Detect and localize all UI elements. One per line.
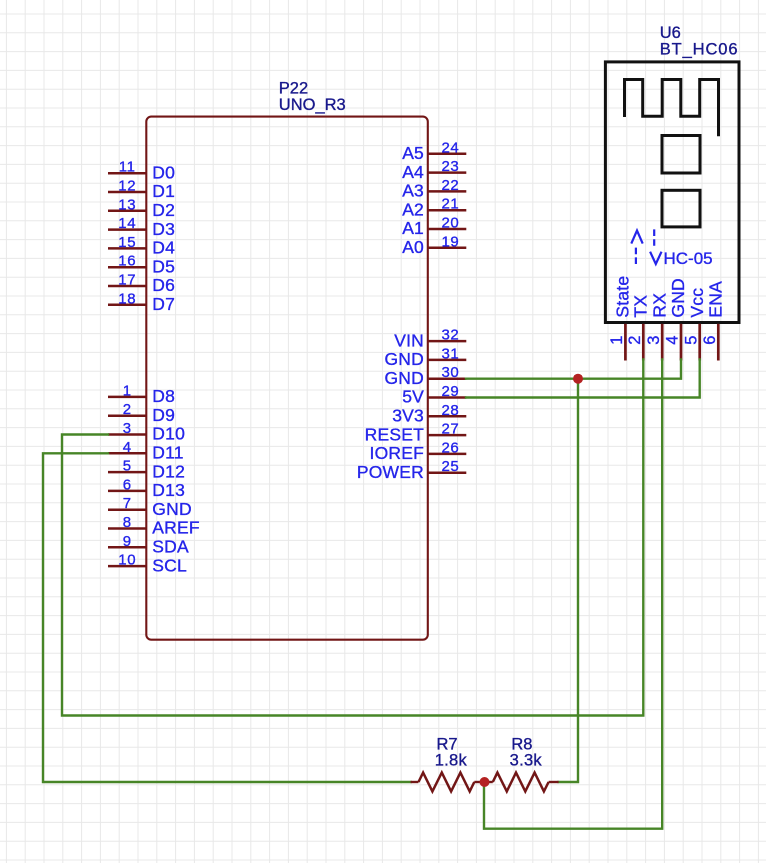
svg-text:12: 12	[118, 178, 136, 195]
wire R8 right to GND net	[559, 379, 578, 782]
pin 17 D6 (UNO left)	[108, 272, 175, 296]
svg-text:P22: P22	[279, 80, 308, 98]
svg-text:SCL: SCL	[152, 555, 187, 575]
svg-text:AREF: AREF	[152, 518, 199, 538]
svg-text:D3: D3	[152, 219, 175, 239]
svg-text:D0: D0	[152, 162, 175, 182]
svg-text:Vcc: Vcc	[687, 288, 707, 318]
svg-text:D8: D8	[152, 386, 175, 406]
svg-text:GND: GND	[385, 349, 425, 369]
svg-text:A2: A2	[402, 199, 424, 219]
IC U=P22 UNO_R3 body	[146, 117, 428, 640]
pin 7 GND (UNO left)	[108, 495, 192, 519]
junction node GND wire / R8 branch	[573, 374, 583, 384]
svg-text:13: 13	[118, 196, 136, 213]
pin 1 State (U6)	[608, 276, 633, 361]
svg-text:29: 29	[441, 383, 459, 400]
wire GND: UNO pin30 to U6 pin4	[466, 360, 681, 379]
pin 4 GND (U6)	[664, 278, 689, 360]
pin 6 D13 (UNO left)	[108, 476, 185, 500]
svg-text:30: 30	[441, 364, 459, 381]
svg-text:BT_HC06: BT_HC06	[660, 41, 739, 59]
pin 5 D12 (UNO left)	[108, 458, 185, 482]
svg-text:D7: D7	[152, 294, 175, 314]
svg-text:5: 5	[682, 336, 700, 345]
svg-text:6: 6	[701, 336, 719, 345]
svg-text:31: 31	[441, 345, 459, 362]
pin 20 A1 (UNO right)	[402, 215, 466, 239]
svg-text:POWER: POWER	[357, 462, 424, 482]
svg-text:D10: D10	[152, 424, 185, 444]
svg-text:VIN: VIN	[394, 330, 424, 350]
svg-text:D4: D4	[152, 238, 175, 258]
pin 25 POWER (UNO right)	[357, 458, 466, 482]
svg-text:1.8k: 1.8k	[435, 751, 468, 769]
pin 29 5V (UNO right)	[402, 383, 466, 407]
pin 27 RESET (UNO right)	[365, 421, 467, 445]
module square pad 1 graphic	[662, 136, 700, 174]
svg-text:D6: D6	[152, 275, 175, 295]
svg-text:A0: A0	[402, 237, 424, 257]
junction node R7/R8/RX	[480, 777, 490, 787]
svg-text:3V3: 3V3	[392, 406, 424, 426]
svg-text:21: 21	[441, 196, 459, 213]
pin 5 Vcc (U6)	[682, 288, 707, 361]
RX dashed arrow (down)	[650, 229, 661, 264]
svg-text:3: 3	[123, 420, 132, 437]
svg-text:5: 5	[123, 458, 132, 475]
pin 22 A3 (UNO right)	[402, 177, 466, 201]
pin 2 TX (U6)	[626, 295, 651, 361]
svg-text:22: 22	[441, 177, 459, 194]
pin 26 IOREF (UNO right)	[370, 439, 467, 463]
wire TX: U6 pin2 to UNO D10	[62, 360, 643, 716]
svg-text:27: 27	[441, 421, 459, 438]
svg-text:U6: U6	[660, 24, 681, 42]
svg-text:9: 9	[123, 533, 132, 550]
svg-text:D5: D5	[152, 256, 175, 276]
svg-text:D13: D13	[152, 480, 185, 500]
svg-text:8: 8	[123, 514, 132, 531]
pin 3 RX (U6)	[645, 293, 670, 361]
svg-text:5V: 5V	[402, 387, 424, 407]
pin 23 A4 (UNO right)	[402, 158, 466, 182]
pin 11 D0 (UNO left)	[108, 159, 175, 183]
svg-text:19: 19	[441, 233, 459, 250]
pin 31 GND (UNO right)	[385, 345, 467, 369]
pin 2 D9 (UNO left)	[108, 401, 175, 425]
svg-text:14: 14	[118, 215, 136, 232]
pin 30 GND (UNO right)	[385, 364, 467, 388]
svg-text:4: 4	[123, 439, 132, 456]
svg-text:RESET: RESET	[365, 424, 424, 444]
svg-text:D11: D11	[152, 443, 183, 463]
svg-text:3: 3	[645, 336, 663, 345]
svg-text:2: 2	[626, 336, 644, 345]
pin 8 AREF (UNO left)	[108, 514, 200, 538]
pin 32 VIN (UNO right)	[394, 327, 466, 351]
IC U6 BT_HC06 body	[605, 62, 739, 323]
svg-text:A4: A4	[402, 162, 424, 182]
wire D11 to R7 left	[43, 453, 411, 782]
svg-text:D1: D1	[152, 181, 175, 201]
svg-text:IOREF: IOREF	[370, 443, 424, 463]
svg-text:20: 20	[441, 215, 459, 232]
pin 10 SCL (UNO left)	[108, 552, 187, 576]
svg-text:1: 1	[608, 336, 626, 345]
pin 14 D3 (UNO left)	[108, 215, 175, 239]
pin 1 D8 (UNO left)	[108, 382, 175, 406]
pin 19 A0 (UNO right)	[402, 233, 466, 257]
svg-text:10: 10	[118, 552, 136, 569]
svg-text:UNO_R3: UNO_R3	[279, 96, 346, 114]
pin 6 ENA (U6)	[701, 281, 726, 361]
svg-text:D9: D9	[152, 405, 175, 425]
svg-text:GND: GND	[152, 499, 192, 519]
pin 16 D5 (UNO left)	[108, 253, 175, 277]
svg-text:18: 18	[118, 290, 136, 307]
pin 15 D4 (UNO left)	[108, 234, 175, 258]
pin 18 D7 (UNO left)	[108, 290, 175, 314]
resistor R7 1.8k	[411, 736, 481, 792]
wire 5V: UNO pin29 to U6 pin5	[466, 360, 700, 398]
svg-text:15: 15	[118, 234, 136, 251]
svg-text:25: 25	[441, 458, 459, 475]
svg-text:1: 1	[123, 382, 132, 399]
svg-text:A3: A3	[402, 181, 424, 201]
svg-text:SDA: SDA	[152, 537, 189, 557]
svg-text:RX: RX	[649, 293, 669, 318]
svg-text:17: 17	[118, 272, 136, 289]
svg-text:D12: D12	[152, 461, 185, 481]
pin 24 A5 (UNO right)	[402, 139, 466, 163]
svg-text:26: 26	[441, 439, 459, 456]
svg-text:D2: D2	[152, 200, 175, 220]
svg-text:11: 11	[119, 159, 136, 176]
svg-text:23: 23	[441, 158, 459, 175]
svg-text:ENA: ENA	[706, 281, 726, 318]
module square pad 2 graphic	[662, 190, 700, 227]
svg-text:24: 24	[441, 139, 459, 156]
pin 9 SDA (UNO left)	[108, 533, 189, 557]
TX dashed arrow (up)	[631, 231, 642, 265]
svg-text:16: 16	[118, 253, 136, 270]
pin 12 D1 (UNO left)	[108, 178, 175, 202]
svg-text:HC-05: HC-05	[664, 249, 713, 268]
svg-text:A1: A1	[402, 218, 424, 238]
wire RX: U6 pin3 to R7/R8 node	[484, 360, 662, 829]
antenna meander graphic inside U6	[625, 80, 719, 137]
resistor R8 3.3k	[488, 736, 559, 792]
svg-text:A5: A5	[402, 143, 424, 163]
svg-text:7: 7	[123, 495, 132, 512]
svg-text:GND: GND	[385, 368, 425, 388]
svg-text:GND: GND	[668, 278, 688, 318]
pin 28 3V3 (UNO right)	[392, 402, 466, 426]
svg-text:6: 6	[123, 476, 132, 493]
svg-text:3.3k: 3.3k	[510, 751, 543, 769]
svg-text:32: 32	[441, 327, 459, 344]
svg-text:4: 4	[664, 336, 682, 345]
pin 21 A2 (UNO right)	[402, 196, 466, 220]
pin 4 D11 (UNO left)	[108, 439, 184, 463]
pin 13 D2 (UNO left)	[108, 196, 175, 220]
svg-text:TX: TX	[631, 295, 651, 318]
svg-text:28: 28	[441, 402, 459, 419]
pin 3 D10 (UNO left)	[108, 420, 185, 444]
svg-text:2: 2	[123, 401, 132, 418]
